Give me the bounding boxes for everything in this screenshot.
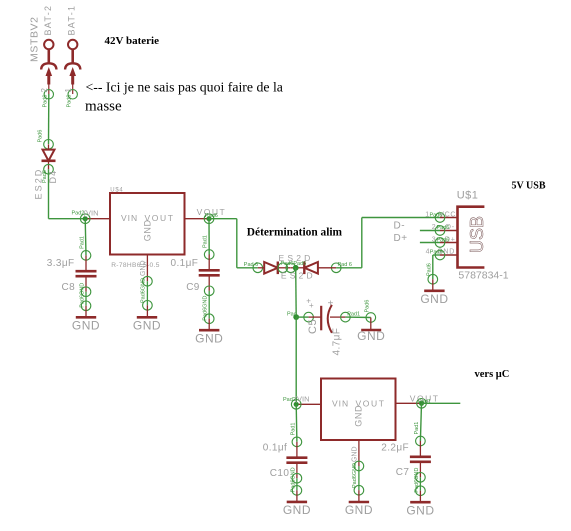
svg-text:GND: GND (143, 219, 153, 241)
svg-text:GND: GND (133, 319, 161, 333)
svg-text:D4: D4 (48, 170, 58, 184)
svg-text:1: 1 (64, 88, 73, 93)
svg-text:D-: D- (394, 221, 406, 232)
svg-text:Pad6: Pad6 (37, 130, 43, 143)
svg-text:Pad1: Pad1 (414, 422, 420, 435)
svg-text:Pad6GND: Pad6GND (290, 467, 296, 492)
svg-text:C8: C8 (62, 282, 76, 293)
svg-text:C7: C7 (396, 467, 410, 478)
svg-text:+: + (309, 301, 314, 310)
svg-text:Pad1: Pad1 (418, 399, 431, 405)
svg-text:Pad6GND: Pad6GND (414, 468, 420, 493)
svg-text:GND: GND (195, 331, 223, 345)
svg-text:Pad 6: Pad 6 (244, 262, 258, 268)
svg-text:ES2D: ES2D (281, 270, 316, 280)
svg-text:Pad6: Pad6 (364, 300, 370, 313)
svg-text:C5: C5 (307, 319, 319, 334)
svg-text:Pad6GND: Pad6GND (352, 463, 358, 488)
svg-text:(VIN: (VIN (295, 395, 310, 404)
svg-text:<-- Ici je ne sais pas quoi fa: <-- Ici je ne sais pas quoi faire de la (86, 80, 283, 95)
svg-text:GND: GND (283, 503, 311, 517)
svg-text:U$1: U$1 (457, 189, 479, 201)
svg-text:BAT-1: BAT-1 (67, 5, 77, 36)
svg-text:Pad1: Pad1 (290, 423, 296, 436)
svg-text:Pad6: Pad6 (426, 263, 432, 276)
svg-text:GND: GND (354, 405, 364, 427)
svg-text:D+: D+ (394, 233, 408, 244)
svg-text:R-78HB6.5-0.5: R-78HB6.5-0.5 (111, 262, 160, 269)
svg-text:0.1μf: 0.1μf (263, 443, 287, 454)
svg-text:Pad6GND: Pad6GND (203, 296, 209, 321)
svg-text:Pad6: Pad6 (66, 95, 72, 108)
svg-text:GND: GND (72, 319, 100, 333)
svg-text:ES2D: ES2D (279, 253, 314, 263)
svg-text:0.1μF: 0.1μF (171, 258, 199, 269)
svg-text:VIN: VIN (121, 213, 138, 223)
svg-text:Pad6: Pad6 (430, 212, 443, 218)
svg-text:MSTBV2: MSTBV2 (29, 16, 41, 62)
svg-text:3.3μF: 3.3μF (47, 258, 75, 269)
svg-text:GND: GND (357, 329, 385, 343)
svg-text:Pad1: Pad1 (80, 236, 86, 249)
svg-text:Pad2: Pad2 (72, 211, 85, 217)
svg-text:2: 2 (40, 88, 49, 93)
svg-text:+: + (328, 299, 334, 310)
svg-text:GND: GND (351, 446, 358, 462)
svg-text:5787834-1: 5787834-1 (458, 269, 508, 281)
svg-text:ES2D: ES2D (34, 168, 44, 200)
svg-text:5V USB: 5V USB (512, 181, 546, 192)
svg-text:Pad1: Pad1 (347, 312, 360, 318)
svg-text:U$4: U$4 (110, 187, 123, 193)
svg-text:GND: GND (140, 260, 147, 276)
svg-text:masse: masse (85, 99, 122, 115)
svg-text:Pad6GND: Pad6GND (80, 283, 86, 308)
svg-text:Pad 6: Pad 6 (338, 262, 352, 268)
svg-text:C9: C9 (186, 282, 200, 293)
svg-text:GND: GND (345, 503, 373, 517)
svg-text:USB: USB (467, 216, 487, 253)
svg-text:GND: GND (406, 503, 434, 517)
svg-text:Pad6GND: Pad6GND (141, 278, 147, 303)
svg-text:Détermination alim: Détermination alim (247, 227, 343, 239)
svg-text:(VIN: (VIN (84, 208, 99, 217)
svg-text:VIN: VIN (332, 398, 349, 408)
svg-text:C10: C10 (270, 468, 290, 479)
svg-text:BAT-2: BAT-2 (43, 5, 53, 36)
svg-text:Pad6: Pad6 (42, 95, 48, 108)
svg-text:2: 2 (432, 224, 436, 231)
svg-text:42V baterie: 42V baterie (105, 35, 160, 47)
svg-text:4.7μF: 4.7μF (332, 328, 343, 356)
svg-text:Pad6: Pad6 (205, 213, 218, 219)
svg-text:Pad1: Pad1 (203, 235, 209, 248)
svg-text:GND: GND (420, 292, 448, 306)
svg-text:vers μC: vers μC (475, 369, 510, 380)
svg-text:2.2μF: 2.2μF (381, 443, 409, 454)
svg-text:Pad: Pad (287, 311, 297, 317)
